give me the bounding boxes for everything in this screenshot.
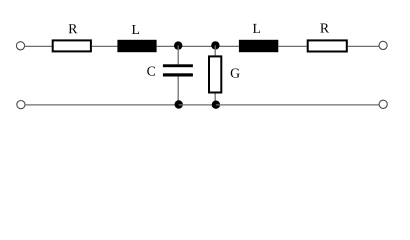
capacitor C (two plates) — [163, 64, 193, 67]
label L (for L2) — [253, 24, 260, 33]
wire R2 to P2 — [348, 45, 379, 47]
label G (for conductance) — [231, 68, 240, 77]
label L (for L1) — [132, 25, 139, 34]
terminal P4 (bottom-right port) — [379, 100, 387, 108]
terminal P3 (bottom-left port) — [17, 101, 25, 109]
wire R1 to L1 — [92, 45, 118, 47]
label R (for R1) — [69, 24, 78, 33]
resistor R2 — [308, 40, 347, 51]
wire capacitor down to node A' — [177, 77, 179, 105]
wire L2 to R2 — [278, 45, 306, 47]
wire node B down to G — [214, 45, 216, 55]
wire node B to L2 — [215, 45, 239, 47]
wire node B' to P4 (bottom return) — [216, 104, 379, 106]
terminal P1 (top-left port) — [16, 42, 24, 50]
wire L1 to node A — [157, 45, 179, 47]
wire node A' to node B' (bottom return) — [179, 104, 216, 106]
wire node A to node B — [178, 45, 215, 47]
wire P1 to R1 — [25, 45, 52, 47]
terminal P2 (top-right port) — [379, 41, 387, 49]
wire node A down to capacitor — [177, 46, 179, 65]
inductor L2 — [239, 40, 278, 52]
conductance G (shunt resistor body) — [209, 56, 221, 92]
junction node B' (bottom of G) — [212, 101, 220, 109]
resistor R1 — [53, 40, 91, 51]
inductor L1 — [117, 40, 156, 52]
wire P3 to node A' (bottom return) — [25, 104, 179, 106]
junction node A (top of C) — [174, 41, 182, 49]
wire G down to node B' — [214, 94, 216, 105]
label C (for capacitor) — [147, 66, 155, 75]
label R (for R2) — [320, 23, 329, 32]
junction node A' (bottom of C) — [175, 100, 183, 108]
junction node B (top of G) — [211, 41, 219, 49]
